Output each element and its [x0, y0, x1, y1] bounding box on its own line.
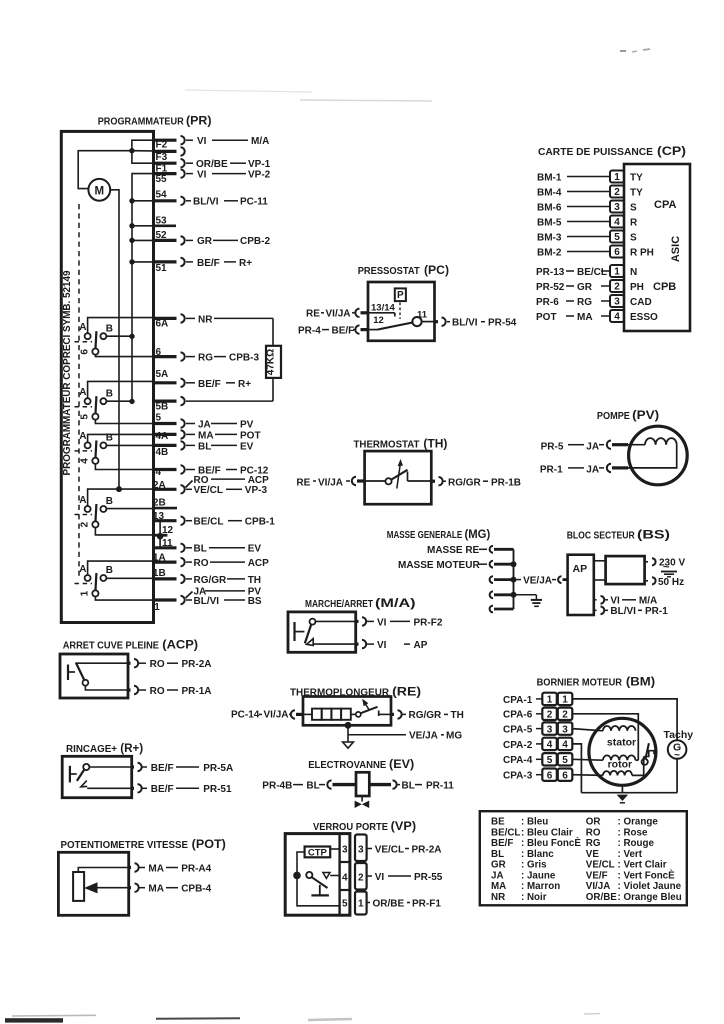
wire 5B contact	[106, 400, 132, 402]
wire 1A contact to pin	[88, 561, 154, 575]
svg-text:ASIC: ASIC	[670, 236, 682, 262]
pin 6	[154, 347, 185, 361]
svg-text:MARCHE/ARRET: MARCHE/ARRET	[305, 599, 374, 610]
svg-text:BE/F: BE/F	[332, 325, 355, 336]
thermal switch RE	[356, 707, 391, 717]
wire RG/GR to TH (pin 1B)	[186, 575, 261, 586]
svg-text:RG/GR: RG/GR	[409, 710, 443, 721]
pump motor circle PV	[629, 426, 688, 485]
svg-text:: Bleu Clair: : Bleu Clair	[521, 827, 573, 838]
tachy generator G	[664, 729, 694, 793]
svg-text:Tachy: Tachy	[664, 729, 694, 741]
svg-text:CPB-3: CPB-3	[229, 353, 259, 364]
wire RG to CPB-3 (pin 6)	[186, 353, 259, 364]
VP terminal pin 3	[355, 835, 367, 862]
svg-text:PR-6: PR-6	[536, 297, 559, 308]
legend row GR / VE/CL	[491, 860, 667, 871]
svg-text:6: 6	[547, 770, 553, 781]
wire JA to PV (pin 1 upper)	[186, 587, 262, 598]
svg-text:R+: R+	[238, 379, 251, 390]
svg-text:VP-1: VP-1	[248, 159, 271, 170]
wire GR to CPB-2 (pin 52)	[186, 236, 270, 247]
svg-text:PC-11: PC-11	[240, 197, 268, 208]
svg-text:ACP: ACP	[248, 558, 269, 569]
svg-text:GR: GR	[197, 236, 213, 247]
svg-text:: Jaune: : Jaune	[521, 870, 556, 881]
pin 2B	[153, 498, 177, 509]
svg-text:4: 4	[614, 312, 620, 323]
svg-text:12: 12	[162, 525, 174, 536]
svg-text:stator: stator	[607, 736, 636, 748]
svg-text:MASSE RE: MASSE RE	[427, 545, 480, 556]
svg-text:THERMOSTAT: THERMOSTAT	[354, 440, 421, 451]
svg-text:A: A	[79, 495, 86, 506]
svg-text:JA: JA	[491, 870, 504, 881]
svg-text:BE/F: BE/F	[491, 838, 513, 849]
svg-text:POT: POT	[536, 312, 557, 323]
svg-text:TH: TH	[451, 710, 464, 721]
pin 4A	[154, 430, 185, 442]
svg-text:R+: R+	[239, 258, 252, 269]
wire motor right to bus1	[110, 190, 119, 489]
transformer box	[606, 556, 645, 584]
centrifugal switch	[642, 743, 654, 765]
wire RO to ACP (pin 1A)	[186, 558, 269, 569]
wire CTP to pin 3	[330, 848, 339, 850]
rinse-hold switch box R+	[62, 756, 132, 797]
svg-text:BE/F: BE/F	[151, 784, 174, 795]
pin 1A	[153, 553, 185, 567]
svg-text:CPA-2: CPA-2	[503, 740, 533, 751]
svg-text:1: 1	[614, 172, 620, 183]
wire PR-6 RG to CPB-3	[536, 297, 610, 308]
svg-text:2A: 2A	[153, 480, 166, 491]
pin 5B	[154, 397, 185, 413]
svg-text:VI: VI	[197, 169, 207, 180]
svg-text:2: 2	[80, 521, 91, 527]
wire 2A contact to pin	[88, 489, 154, 506]
svg-text:4A: 4A	[156, 431, 169, 442]
wire RG/GR to PR-1B (TH output)	[431, 477, 521, 489]
svg-text:RG: RG	[198, 353, 213, 364]
svg-text:ARRET CUVE PLEINE: ARRET CUVE PLEINE	[63, 641, 159, 652]
svg-text:PR-2A: PR-2A	[412, 844, 442, 855]
svg-text:BE/CL: BE/CL	[194, 517, 224, 528]
svg-text:GR: GR	[491, 860, 506, 871]
rotor winding upper	[572, 755, 638, 760]
pressure sensor P box	[395, 288, 406, 319]
svg-text:PR-2A: PR-2A	[182, 659, 212, 670]
scan artifact bottom-left bar	[5, 1018, 63, 1022]
wire 1B contact	[106, 577, 153, 579]
wire CTP common	[293, 852, 339, 906]
svg-text:PR-55: PR-55	[414, 872, 443, 883]
svg-text:5A: 5A	[156, 369, 169, 380]
svg-text:POTENTIOMETRE VITESSE: POTENTIOMETRE VITESSE	[61, 840, 189, 851]
wire VI to VP-2 (pin 55)	[186, 169, 271, 180]
svg-text:PV: PV	[240, 419, 254, 430]
wire pin 5B to resistor bottom	[186, 400, 273, 402]
switch group 5 (contacts A/B)	[75, 387, 114, 420]
svg-text:PR-1: PR-1	[645, 606, 668, 617]
svg-text:RG: RG	[586, 838, 601, 849]
svg-text:(EV): (EV)	[389, 757, 414, 771]
svg-text:VE/F: VE/F	[586, 870, 608, 881]
wire row1 to tachy	[572, 699, 677, 740]
connector bottom MG	[490, 606, 514, 613]
heater box RE	[303, 697, 391, 726]
svg-text:5: 5	[547, 755, 553, 766]
connector PR-4B BL to EV	[262, 780, 356, 791]
svg-text:(PV): (PV)	[632, 408, 659, 422]
pump winding	[626, 438, 677, 468]
lock anchor T	[311, 885, 329, 896]
adjustment arrow	[397, 459, 403, 489]
rotor winding lower	[572, 757, 643, 776]
svg-text:PR-4: PR-4	[298, 325, 321, 336]
wire CPA-6 to BM row 2	[503, 710, 542, 721]
ground bus MG	[513, 549, 515, 609]
svg-text:BL: BL	[491, 849, 504, 860]
svg-text:ELECTROVANNE: ELECTROVANNE	[308, 760, 386, 771]
svg-text:54: 54	[156, 190, 168, 201]
svg-text:RO: RO	[586, 827, 601, 838]
svg-text:(M/A): (M/A)	[375, 596, 416, 610]
wire MA to PR-A4 (POT)	[78, 863, 211, 874]
pin 5	[154, 413, 185, 428]
wire row4 to ground line	[572, 744, 581, 793]
wire row2 to centrifugal switch	[572, 714, 638, 760]
svg-text:P: P	[397, 290, 404, 301]
VP terminal pin 2	[355, 863, 367, 890]
svg-text:M/A: M/A	[639, 596, 657, 607]
lock switch VP	[306, 872, 339, 888]
wire BE/F to PC-12 (pin 4)	[186, 465, 269, 476]
wire VI to PR-55 (VP 2)	[367, 872, 443, 883]
svg-text:PR-1: PR-1	[540, 465, 563, 476]
terminal BM col1 pin 4	[542, 738, 557, 751]
svg-text:VP-2: VP-2	[248, 169, 271, 180]
svg-text:: Rose: : Rose	[618, 827, 648, 838]
svg-text:(TH): (TH)	[423, 437, 447, 451]
terminal BM col1 pin 2	[542, 708, 557, 721]
mains filter box AP	[568, 555, 594, 615]
wire BE/F to PR-51 (R+)	[87, 784, 232, 795]
svg-text:PR-5: PR-5	[541, 441, 564, 452]
scan artifact bottom line	[156, 1017, 240, 1020]
svg-text:3: 3	[358, 844, 364, 855]
wire 5 bottom contact to pin	[95, 420, 153, 424]
svg-text:CPB-2: CPB-2	[240, 236, 270, 247]
svg-text:BL/VI: BL/VI	[610, 606, 636, 617]
svg-text:POT: POT	[240, 430, 261, 441]
wire RO to PR-2A (ACP)	[77, 659, 212, 670]
svg-text:BE: BE	[491, 817, 505, 828]
wire 6B contact	[106, 335, 132, 337]
terminal BM col1 pin 5	[542, 753, 557, 766]
svg-text:: Orange Bleu: : Orange Bleu	[618, 892, 682, 903]
svg-text:BS: BS	[248, 596, 262, 607]
svg-text:3: 3	[614, 202, 620, 213]
pin 1B	[153, 568, 185, 583]
valve symbol	[355, 796, 370, 808]
pin 6A	[154, 314, 185, 329]
terminal CPA pin 6	[610, 246, 624, 259]
svg-text:BM-4: BM-4	[537, 187, 562, 198]
svg-text:VE/JA: VE/JA	[409, 731, 438, 742]
wire 50 Hz	[645, 577, 685, 588]
svg-text:R: R	[630, 217, 638, 228]
VP terminal pin 1	[355, 892, 367, 915]
pin 2A	[153, 480, 185, 494]
svg-text:: Vert Clair: : Vert Clair	[618, 860, 667, 871]
svg-text:B: B	[106, 388, 113, 399]
wire RO to PR-1A (ACP)	[85, 686, 211, 697]
pin 5A	[154, 369, 185, 387]
svg-text:: Vert FoncÈ: : Vert FoncÈ	[618, 869, 676, 881]
earth ground symbol RE	[343, 742, 354, 748]
svg-text:F2: F2	[156, 140, 168, 151]
svg-text:S: S	[630, 232, 637, 243]
svg-text:EV: EV	[240, 441, 254, 452]
svg-text:13/14: 13/14	[371, 302, 395, 313]
wire BE/F to PR-5A (R+)	[89, 763, 233, 774]
svg-text:OR/BE: OR/BE	[196, 159, 228, 170]
wire 4A contact to pin	[88, 434, 154, 442]
svg-text:2: 2	[614, 282, 620, 293]
svg-text:VE/JA: VE/JA	[523, 575, 552, 586]
terminal BM col2 pin 3	[558, 722, 573, 735]
pin F1	[154, 159, 185, 175]
terminal BM col2 pin 2	[558, 708, 573, 721]
heater element squares	[303, 709, 356, 720]
svg-text:VI/JA: VI/JA	[326, 308, 351, 319]
svg-text:AP: AP	[573, 563, 588, 575]
pin 51	[154, 258, 185, 274]
wire OR/BE to VP-1 (pin F1)	[186, 159, 271, 170]
F-pin bus with junction	[129, 140, 153, 163]
svg-text:A: A	[79, 431, 86, 442]
svg-text:: Vert: : Vert	[618, 849, 643, 860]
svg-text:BE/CL: BE/CL	[577, 267, 607, 278]
svg-text:PR-A4: PR-A4	[181, 863, 211, 874]
svg-text:: Bleu FoncÈ: : Bleu FoncÈ	[521, 837, 581, 849]
terminal BM col2 pin 1	[558, 693, 573, 706]
switch R+	[70, 764, 90, 787]
pin 11	[154, 538, 185, 552]
svg-text:VI: VI	[375, 872, 385, 883]
svg-text:PR-11: PR-11	[426, 780, 454, 791]
pin 13	[153, 511, 185, 525]
svg-text:rotor: rotor	[608, 759, 633, 771]
svg-text:RG: RG	[577, 297, 592, 308]
wire CPA-5 to BM row 3	[503, 725, 542, 736]
svg-text:5: 5	[156, 413, 162, 424]
svg-text:12: 12	[373, 315, 384, 326]
svg-text:A: A	[79, 387, 86, 398]
terminal CPA pin 4	[610, 216, 624, 229]
svg-text:MA: MA	[148, 863, 164, 874]
terminal BM col1 pin 3	[542, 722, 557, 735]
svg-text:CARTE DE PUISSANCE: CARTE DE PUISSANCE	[538, 147, 653, 158]
svg-text:(ACP): (ACP)	[162, 638, 198, 652]
svg-text:(BM): (BM)	[626, 675, 655, 689]
wire 5A contact to pin	[88, 381, 154, 398]
svg-text:NR: NR	[491, 892, 505, 903]
svg-text:JA: JA	[198, 419, 211, 430]
pressure switch box PC	[368, 282, 435, 341]
svg-text:53: 53	[156, 216, 168, 227]
svg-text:ESSO: ESSO	[630, 312, 658, 323]
motor M (programmer drive)	[88, 179, 110, 201]
svg-text:OR/BE: OR/BE	[586, 892, 617, 903]
svg-text:N: N	[630, 267, 637, 278]
wire RO to ACP (pin 2A upper)	[186, 475, 270, 488]
svg-text:CTP: CTP	[308, 847, 328, 858]
svg-text:4: 4	[547, 740, 553, 751]
resistor 47KOhm	[266, 318, 282, 401]
svg-text:BE/F: BE/F	[198, 379, 221, 390]
svg-text:(PC): (PC)	[424, 263, 449, 277]
pin F3	[154, 147, 185, 163]
thermostat switch contact	[365, 470, 432, 485]
svg-text:JA: JA	[586, 441, 599, 452]
wire BM-5 to CPA-4	[537, 217, 610, 228]
arrow on switch RE	[362, 699, 369, 711]
wire JA to PV (pin 5)	[186, 419, 254, 430]
terminal CPB pin 1	[610, 265, 624, 278]
wire BE/CL to CPB-1 (pin 13)	[186, 517, 275, 528]
wiper arrow and wire MA to CPB-4 (POT)	[84, 882, 212, 894]
contact 12 and lever	[368, 315, 413, 330]
potentiometer resistor	[73, 872, 84, 901]
svg-text:13: 13	[153, 511, 165, 522]
svg-text:(VP): (VP)	[391, 819, 416, 833]
terminal BM col2 pin 5	[558, 753, 573, 766]
pin F2	[154, 136, 185, 151]
svg-text:2B: 2B	[153, 498, 166, 509]
svg-text:GR: GR	[577, 282, 593, 293]
svg-text:PR-1A: PR-1A	[182, 686, 212, 697]
switch ACP	[68, 663, 88, 686]
connector to earth ground	[490, 591, 537, 599]
svg-text:1: 1	[80, 590, 91, 596]
svg-text:CPB-4: CPB-4	[181, 884, 211, 895]
power board box CP	[624, 164, 690, 331]
junction to VE/JA MG	[345, 722, 463, 742]
wire VI to M/A (BS)	[594, 596, 657, 607]
svg-text:51: 51	[156, 263, 168, 274]
legend row BL / VE	[491, 849, 643, 860]
svg-text:VI/JA: VI/JA	[318, 478, 343, 489]
svg-text:6: 6	[80, 349, 91, 355]
svg-text:CPA-5: CPA-5	[503, 725, 533, 736]
svg-text:PC-14: PC-14	[231, 710, 260, 721]
svg-text:3: 3	[547, 724, 553, 735]
wire RG/GR to TH (RE output)	[391, 710, 464, 721]
svg-text:BM-2: BM-2	[537, 247, 562, 258]
stator winding	[572, 726, 635, 731]
svg-text:5: 5	[562, 755, 568, 766]
terminal CPB pin 3	[610, 295, 624, 308]
svg-text:PROGRAMMATEUR COPRECI SYMB. 52: PROGRAMMATEUR COPRECI SYMB. 52149	[62, 270, 73, 475]
svg-text:BM-1: BM-1	[537, 172, 562, 183]
svg-text:6: 6	[614, 247, 620, 258]
wire BL/VI to PR-54 (PC-11 output)	[435, 318, 517, 329]
wire VI to M/A (pin F2)	[186, 136, 269, 147]
scan artifact bottom smudge	[308, 1019, 352, 1020]
pin 1	[154, 596, 185, 613]
svg-text:TH: TH	[248, 575, 261, 586]
wire BM-2 to CPA-6	[537, 247, 610, 258]
colour legend table	[480, 811, 687, 905]
svg-text:A: A	[79, 564, 86, 575]
wire BE/F to R+ (pin 5A)	[186, 379, 251, 390]
terminal BM col2 pin 4	[558, 738, 573, 751]
svg-text:1: 1	[154, 602, 160, 613]
svg-text:: Orange: : Orange	[618, 817, 659, 828]
wire POT MA to CPB-4	[536, 312, 610, 323]
svg-text:BM-3: BM-3	[537, 232, 562, 243]
pin 53	[154, 216, 177, 227]
ground line BM	[581, 792, 677, 794]
terminal CPA pin 1	[610, 171, 624, 184]
wire 6A contact to pin	[88, 318, 154, 334]
connector PR-1 JA to pump	[540, 464, 628, 476]
svg-text:4: 4	[80, 458, 91, 464]
svg-text:MA: MA	[577, 312, 593, 323]
svg-text:1: 1	[547, 695, 553, 706]
svg-text:PRESSOSTAT: PRESSOSTAT	[358, 266, 421, 277]
wire MA to POT (pin 4A)	[186, 430, 261, 441]
svg-text:: Bleu: : Bleu	[521, 817, 548, 828]
motor circle BM	[589, 718, 656, 785]
pin 54	[154, 190, 185, 206]
svg-text:RINCAGE+: RINCAGE+	[66, 744, 117, 755]
svg-text:(MG): (MG)	[465, 527, 491, 541]
earth ground symbol BS	[661, 572, 677, 577]
svg-text:4: 4	[342, 872, 348, 883]
svg-text:VI: VI	[377, 617, 387, 628]
svg-text:: Noir: : Noir	[521, 892, 547, 903]
svg-text:B: B	[106, 323, 113, 334]
svg-text:3: 3	[614, 297, 620, 308]
svg-text:POMPE: POMPE	[597, 411, 630, 422]
wire BE/F to R+ (pin 51)	[186, 258, 252, 269]
wire 6 bottom contact to pin	[95, 355, 153, 357]
svg-text:4: 4	[156, 467, 162, 478]
svg-text:PR-F1: PR-F1	[412, 898, 441, 909]
svg-text:TY: TY	[630, 172, 643, 183]
legend row BE/CL / RO	[491, 827, 648, 838]
wire CPA-2 to BM row 4	[503, 740, 542, 751]
wire OR/BE to PR-F1 (VP 1)	[367, 898, 442, 909]
svg-text:EV: EV	[248, 544, 262, 555]
svg-text:4: 4	[562, 740, 568, 751]
svg-text:PR-4B: PR-4B	[262, 780, 292, 791]
wire BM-3 to CPA-5	[537, 232, 610, 243]
wire BL/VI to BS (pin 1 lower)	[186, 596, 262, 607]
svg-text:1: 1	[562, 695, 568, 706]
wire motor left to F-bus	[78, 151, 132, 189]
svg-text:S: S	[630, 202, 637, 213]
svg-text:(RE): (RE)	[392, 685, 421, 699]
programmer box PR outline	[61, 131, 153, 622]
svg-text:CPA-4: CPA-4	[503, 755, 533, 766]
svg-text:2: 2	[614, 187, 620, 198]
wire BL to PR-11 (EV)	[369, 780, 454, 791]
switch group 4 (contacts A/B)	[75, 431, 114, 464]
